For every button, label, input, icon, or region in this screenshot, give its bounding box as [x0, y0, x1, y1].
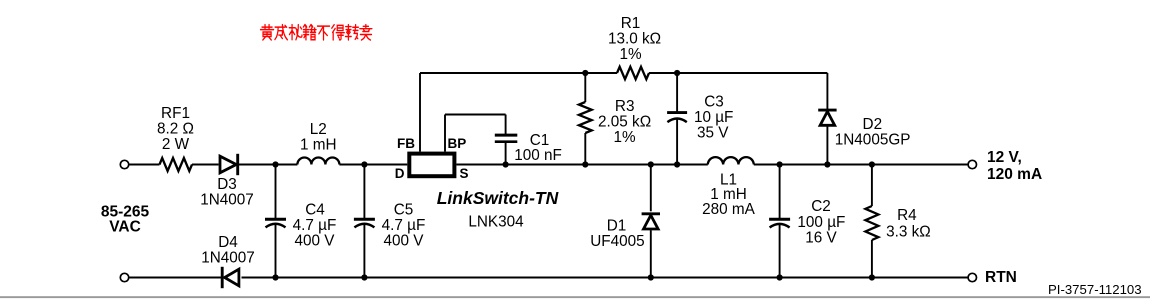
svg-text:8.2 Ω: 8.2 Ω [157, 121, 194, 138]
svg-text:C2: C2 [811, 198, 831, 215]
capacitor C5 [354, 219, 375, 227]
svg-text:4.7 µF: 4.7 µF [382, 217, 426, 234]
svg-text:16 V: 16 V [805, 230, 837, 247]
wire: D2 branch vertical [826, 73, 828, 165]
node: C2 bottom junction [777, 274, 783, 280]
wire: top input to RF1 [129, 164, 160, 166]
wire: C1 branch vertical [505, 115, 507, 165]
svg-text:1N4007: 1N4007 [200, 192, 254, 209]
wire: R3 branch vertical [584, 73, 586, 165]
wire: R4 branch vertical [871, 165, 873, 278]
svg-text:D3: D3 [217, 176, 237, 193]
IC U1 LNK304 [409, 154, 454, 177]
node: C2 top junction [777, 161, 783, 167]
svg-text:10 µF: 10 µF [694, 109, 733, 126]
svg-text:S: S [460, 166, 469, 181]
wire: IC S pin to L1 [456, 164, 707, 166]
svg-text:BP: BP [448, 136, 467, 151]
wire: bottom rail D4 to RTN [242, 277, 969, 279]
label L1 [702, 172, 756, 219]
input terminal (neutral) [120, 273, 128, 281]
diode D2 [818, 110, 836, 125]
node: R3 top junction [582, 70, 588, 76]
output terminal RTN [968, 273, 976, 281]
wire: C4 branch vertical [275, 165, 277, 278]
label C2 [797, 198, 845, 247]
diode D4 [222, 267, 239, 288]
node: C4 bottom junction [272, 274, 278, 280]
output terminal 12V [968, 160, 976, 168]
svg-text:1N4007: 1N4007 [201, 250, 255, 267]
wire: D3 to L2 [238, 164, 298, 166]
node: R3 bottom junction [582, 161, 588, 167]
svg-text:400 V: 400 V [384, 233, 425, 250]
label L2 [300, 121, 337, 154]
wire: D1 branch vertical [650, 165, 652, 278]
svg-text:D4: D4 [218, 234, 238, 251]
node: C5 bottom junction [361, 274, 367, 280]
svg-text:1N4005GP: 1N4005GP [835, 132, 911, 149]
svg-text:2 W: 2 W [162, 136, 190, 153]
svg-text:C4: C4 [305, 202, 325, 219]
svg-text:PI-3757-112103: PI-3757-112103 [1048, 282, 1142, 297]
svg-text:VAC: VAC [109, 218, 141, 235]
node: C3 bottom junction [674, 161, 680, 167]
capacitor C1 [495, 135, 518, 142]
svg-text:1%: 1% [619, 46, 642, 63]
wire: top rail FB to R1 [420, 72, 617, 74]
svg-text:280 mA: 280 mA [702, 201, 756, 218]
wire: C3 branch vertical [676, 73, 678, 165]
diode D1 [642, 214, 660, 229]
node: D1 bottom junction [648, 274, 654, 280]
label 85-265 VAC [101, 203, 150, 235]
svg-text:3.3 kΩ: 3.3 kΩ [886, 223, 931, 240]
capacitor C3 [667, 113, 687, 123]
wire: top rail R1 to D2 corner [649, 72, 827, 74]
svg-text:C5: C5 [394, 202, 414, 219]
label 12V 120mA [987, 149, 1042, 183]
node: D1 top junction [648, 161, 654, 167]
wire: C2 branch vertical [779, 165, 781, 278]
label C1 [514, 132, 562, 164]
resistor R3 [579, 102, 592, 133]
label R1 [608, 15, 661, 63]
label R4 [886, 207, 931, 240]
label D3 [200, 176, 254, 209]
inductor L1 [708, 157, 754, 164]
resistor R1 [617, 67, 649, 79]
svg-text:35 V: 35 V [697, 125, 729, 142]
svg-text:4.7 µF: 4.7 µF [293, 217, 337, 234]
svg-text:C3: C3 [704, 94, 724, 111]
watermark red CJK text [261, 25, 372, 40]
svg-text:D2: D2 [863, 116, 883, 133]
svg-text:100 µF: 100 µF [797, 214, 845, 231]
node: C3 top junction [674, 70, 680, 76]
node: R4 top junction [869, 161, 875, 167]
svg-text:R3: R3 [615, 98, 635, 115]
label D4 [201, 234, 255, 267]
label C3 [694, 94, 733, 142]
resistor R4 [865, 206, 878, 240]
resistor RF1 [160, 158, 193, 171]
wire: RF1 to D3 [192, 164, 219, 166]
node: C5 top junction [361, 161, 367, 167]
inductor L2 [297, 158, 339, 165]
svg-text:LinkSwitch-TN: LinkSwitch-TN [437, 188, 559, 208]
capacitor C4 [265, 219, 286, 227]
svg-text:D: D [395, 166, 405, 181]
svg-text:D1: D1 [607, 218, 627, 235]
svg-text:100 nF: 100 nF [514, 147, 562, 164]
diode D3 [220, 154, 238, 175]
capacitor C2 [769, 219, 790, 227]
svg-text:FB: FB [397, 136, 415, 151]
label D1 [590, 218, 644, 251]
label D2 [835, 116, 911, 149]
node: C1 bottom junction [503, 161, 509, 167]
node: R4 bottom junction [869, 274, 875, 280]
svg-text:13.0 kΩ: 13.0 kΩ [608, 31, 661, 48]
wire: bottom input to D4 [129, 277, 221, 279]
label RF1 [157, 105, 194, 153]
svg-text:LNK304: LNK304 [468, 214, 524, 231]
svg-text:400 V: 400 V [295, 233, 336, 250]
wire: BP to C1 [445, 114, 506, 116]
svg-text:L2: L2 [310, 121, 327, 138]
svg-text:UF4005: UF4005 [590, 233, 644, 250]
svg-text:120 mA: 120 mA [987, 166, 1042, 183]
svg-text:R4: R4 [897, 207, 917, 224]
label R3 [598, 98, 651, 146]
wire: C5 branch vertical [363, 165, 365, 278]
label C4 [293, 202, 337, 250]
wire: FB pin vertical [419, 73, 421, 152]
bottom border rule [0, 296, 1150, 298]
wire: BP pin vertical [444, 115, 446, 152]
svg-text:RF1: RF1 [161, 105, 190, 122]
label C5 [382, 202, 426, 250]
svg-text:1%: 1% [614, 129, 637, 146]
input terminal (line) [120, 160, 128, 168]
wire: L1 to 12V terminal [754, 164, 969, 166]
svg-text:RTN: RTN [985, 269, 1017, 286]
node: C4 top junction [272, 161, 278, 167]
svg-text:1 mH: 1 mH [300, 137, 337, 154]
svg-text:12 V,: 12 V, [987, 149, 1022, 166]
svg-text:2.05 kΩ: 2.05 kΩ [598, 114, 651, 131]
node: D2 bottom junction [824, 161, 830, 167]
wire: L2 to IC [339, 164, 407, 166]
svg-text:R1: R1 [621, 15, 641, 32]
